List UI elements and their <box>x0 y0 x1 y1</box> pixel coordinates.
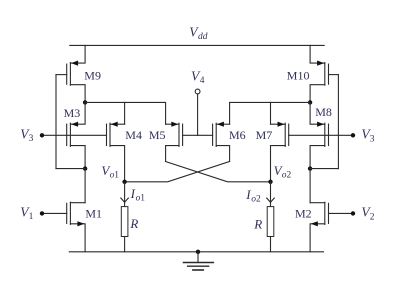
svg-text:M8: M8 <box>315 105 332 119</box>
transistor M8 <box>310 102 328 168</box>
transistor M5 <box>166 122 198 162</box>
svg-text:M7: M7 <box>256 128 273 142</box>
svg-text:M2: M2 <box>295 206 312 220</box>
node: V1 terminal dot <box>40 211 44 215</box>
label V3 left <box>20 126 33 144</box>
label Vdd <box>189 25 207 43</box>
wire: M10 gate to node C <box>337 75 339 169</box>
wire: V3 input line left (gates of M3,M4) <box>42 134 107 136</box>
transistor M4 <box>107 122 125 182</box>
svg-text:R: R <box>253 217 262 232</box>
svg-text:1: 1 <box>140 193 145 203</box>
wire: node C horizontal to M10 gate line <box>310 168 338 170</box>
svg-text:M6: M6 <box>229 128 246 142</box>
node A2 junction (M10 drain / M8 source) <box>308 100 312 104</box>
node: V2 terminal dot <box>351 211 355 215</box>
label Io2 <box>245 187 261 205</box>
wire: M5 drain cross-couple to node Vo2 <box>166 162 271 182</box>
label Vo2 <box>274 163 292 181</box>
svg-text:3: 3 <box>370 134 375 144</box>
svg-text:2: 2 <box>370 212 375 222</box>
transistor M3 <box>67 102 85 168</box>
svg-text:1: 1 <box>114 170 119 180</box>
transistor M6 <box>198 122 230 162</box>
label Vo1 <box>101 163 119 181</box>
svg-text:2: 2 <box>287 171 292 181</box>
svg-text:3: 3 <box>29 134 34 144</box>
transistor M9 <box>56 45 85 102</box>
ground symbol <box>183 250 213 270</box>
current arrow Io2 <box>267 182 275 203</box>
svg-text:2: 2 <box>256 195 261 205</box>
svg-text:M1: M1 <box>85 206 102 220</box>
node: V3 left terminal dot <box>40 133 44 137</box>
svg-text:M5: M5 <box>149 128 166 142</box>
svg-text:M3: M3 <box>64 106 81 120</box>
node Vo2 junction <box>268 180 272 184</box>
label Io1 <box>130 186 146 204</box>
transistor M10 <box>310 45 338 102</box>
node C junction (M8 drain / M2 drain / M10 gate) <box>308 166 312 170</box>
wire: node A2 to M6 source top <box>230 102 311 124</box>
node: V3 right terminal dot <box>351 133 355 137</box>
resistor R left <box>121 202 128 252</box>
wire: M4 source tap <box>124 102 126 124</box>
transistor M7 <box>271 122 289 182</box>
wire: node B down to M1 drain <box>84 169 86 203</box>
svg-text:dd: dd <box>198 32 208 42</box>
svg-text:1: 1 <box>29 212 34 222</box>
label V1 <box>20 204 33 222</box>
node Vo1 junction <box>122 180 126 184</box>
transistor M1 <box>42 202 85 252</box>
node B junction (M3 drain / M1 drain / M9 gate) <box>83 166 87 170</box>
label V2 <box>361 205 374 223</box>
wire: node A to M5 source top <box>85 102 166 124</box>
transistor M2 <box>310 202 353 252</box>
resistor R right <box>267 202 274 252</box>
label V3 right <box>361 127 374 145</box>
wire: M9 gate to node B (diode connection) <box>55 75 57 169</box>
label V4 <box>191 69 205 87</box>
wire: V3 input line right (gates of M8,M7) <box>289 134 353 136</box>
wire: node B horizontal to M9 gate line <box>56 168 85 170</box>
svg-text:M9: M9 <box>84 68 101 82</box>
svg-text:R: R <box>129 216 138 231</box>
svg-text:M4: M4 <box>125 128 142 142</box>
terminal V4 <box>195 89 200 94</box>
wire: M6 drain cross-couple to node Vo1 <box>125 162 230 182</box>
svg-text:4: 4 <box>200 76 205 86</box>
power rail Vdd <box>70 44 324 46</box>
ground rail <box>69 251 323 253</box>
node A junction (M9 drain / M3 source) <box>83 100 87 104</box>
wire: V4 to gates of M5,M6 <box>197 94 199 135</box>
wire: M7 source tap <box>270 102 272 124</box>
svg-text:M10: M10 <box>287 68 310 82</box>
wire: node C down to M2 drain <box>309 169 311 203</box>
current arrow Io1 <box>121 182 129 203</box>
